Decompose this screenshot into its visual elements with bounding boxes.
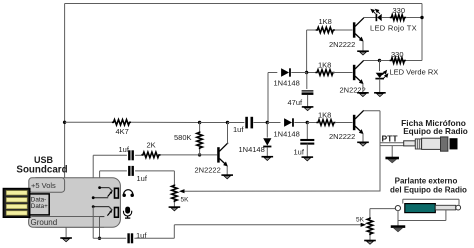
svg-text:1N4148: 1N4148 xyxy=(239,145,265,154)
svg-text:1N4148: 1N4148 xyxy=(274,79,300,88)
wire rowB right xyxy=(135,170,174,172)
wire rowB down to pot xyxy=(173,171,175,184)
wire node D to 1K8 PTT xyxy=(307,122,317,124)
svg-text:330: 330 xyxy=(391,50,404,59)
junction sleeve hp xyxy=(92,196,95,199)
LED verde RX D2 xyxy=(376,73,384,78)
connector mic plug xyxy=(404,141,416,146)
wire C3 to node C xyxy=(253,122,267,124)
svg-text:1K8: 1K8 xyxy=(319,17,332,26)
wire 330 to rail xyxy=(406,17,422,19)
resistor 2K xyxy=(141,152,160,158)
wire 1K8 to Q2 base xyxy=(334,29,353,31)
capacitor 1uf C5 (bottom) xyxy=(127,233,129,243)
wire step up xyxy=(173,225,175,239)
wire to 1uf C3 xyxy=(228,122,245,124)
wire node D down to C4 xyxy=(306,123,308,140)
svg-text:Soundcard: Soundcard xyxy=(16,165,67,176)
wire 1K8 to Q4 base xyxy=(335,122,353,124)
icon microphone xyxy=(125,207,130,214)
transistor Q1 2N2222 (preamp) xyxy=(217,147,220,162)
USB plug contacts xyxy=(3,189,29,218)
svg-text:Parlante externo: Parlante externo xyxy=(395,176,458,185)
svg-text:+5 Vols: +5 Vols xyxy=(31,181,56,190)
potentiometer 5K P1 xyxy=(172,184,178,202)
diode 1N4148 D4 xyxy=(284,118,292,126)
wire mic sleeve down xyxy=(99,217,101,239)
junction bottom row xyxy=(98,237,101,240)
ground Q4 emitter xyxy=(357,141,369,143)
resistor 580K (vertical) xyxy=(197,131,203,149)
wire Q3 emitter down xyxy=(362,84,364,93)
svg-text:1K8: 1K8 xyxy=(318,111,331,120)
USB soundcard body xyxy=(29,178,120,228)
wire PTT ground stub xyxy=(391,146,393,157)
wire corner to 1K8 xyxy=(307,29,317,31)
wire rowA left xyxy=(93,154,127,156)
jack headphone tip contact xyxy=(100,187,110,189)
wire node C to diode D4 xyxy=(267,122,280,124)
wire 2K to junction xyxy=(161,154,200,156)
capacitor 1uf C3 (series) xyxy=(245,117,248,129)
ground P1 xyxy=(169,206,181,208)
wire mic tip down xyxy=(92,207,94,239)
wire LED to 330 xyxy=(382,17,391,19)
junction LED verde xyxy=(378,59,381,62)
wire junction to 330 RX xyxy=(380,60,391,62)
wire speaker top right down xyxy=(458,199,460,205)
svg-text:1uf: 1uf xyxy=(233,125,244,134)
wire D3 to node A xyxy=(291,72,307,74)
capacitor 1uf C4 (vertical) xyxy=(300,139,314,141)
junction tip mic xyxy=(92,205,95,208)
wire +5V rail top xyxy=(65,3,422,5)
junction node C xyxy=(266,121,269,124)
LED rojo TX D1 xyxy=(375,14,377,21)
wire 330 to rail right xyxy=(406,60,422,62)
resistor 4K7 xyxy=(112,120,131,126)
ground USB xyxy=(60,237,72,239)
wire bottom row to step xyxy=(134,237,174,239)
svg-text:2K: 2K xyxy=(147,141,156,150)
junction Q1 collector xyxy=(226,121,229,124)
diode 1N4148 D3 xyxy=(281,68,289,76)
svg-text:47uf: 47uf xyxy=(288,98,304,107)
capacitor 47uf (electrolytic) xyxy=(302,90,314,92)
wire bottom row left xyxy=(93,237,126,239)
wire junction to Q1 base xyxy=(200,154,218,156)
jack mic body xyxy=(115,208,119,218)
wire +5V rail right xyxy=(421,4,423,61)
svg-text:1uf: 1uf xyxy=(137,174,148,183)
diode 1N4148 D5 (vertical) xyxy=(263,138,271,145)
resistor 1K8 (RX base) xyxy=(315,70,334,76)
wire to P2 wiper xyxy=(174,224,360,226)
potentiometer 5K P2 xyxy=(367,217,373,235)
ground speaker (chassis) xyxy=(391,225,406,228)
wire speaker to P2 xyxy=(370,208,395,210)
ground Q2 emitter xyxy=(357,50,369,52)
wire vert to diode D3 xyxy=(268,72,277,74)
wire 580K top stub xyxy=(199,123,201,132)
wire C4 to ground xyxy=(306,144,308,157)
jack mic sleeve contact xyxy=(100,216,105,218)
ground 47uf xyxy=(302,106,314,108)
svg-text:5K: 5K xyxy=(181,197,190,204)
wire USB ground down xyxy=(65,227,67,237)
wire Q3 collector to junction xyxy=(363,60,379,62)
wire vertical to node A xyxy=(306,30,308,73)
transistor Q3 2N2222 (LED verde driver) xyxy=(353,65,356,80)
ground C4 xyxy=(302,156,314,158)
junction tip hp xyxy=(98,186,101,189)
jack mic switch arrow xyxy=(107,212,110,216)
wire speaker left to ground xyxy=(397,211,399,226)
svg-text:2N2222: 2N2222 xyxy=(329,132,355,141)
ground PTT (chassis) xyxy=(385,157,399,160)
wire speaker bottom up xyxy=(445,210,447,221)
wiper arrow P2 xyxy=(361,223,367,227)
wire junction to LED verde xyxy=(379,61,381,72)
USB data cell xyxy=(30,194,50,215)
wire Q1 emitter down xyxy=(226,166,228,175)
svg-text:Data+: Data+ xyxy=(31,203,48,210)
wire 1K8 to Q3 base xyxy=(333,72,352,74)
svg-text:1uf: 1uf xyxy=(119,145,130,154)
wire PTT tip line xyxy=(380,142,404,144)
wire speaker bottom xyxy=(398,220,446,222)
capacitor 1uf C2 (rowB) xyxy=(128,166,130,176)
resistor 330 (RX LED) xyxy=(390,58,406,64)
svg-text:4K7: 4K7 xyxy=(116,127,129,136)
transistor Q4 2N2222 (PTT) xyxy=(353,115,356,130)
junction rail/4K7 xyxy=(63,121,66,124)
svg-text:Equipo de Radio: Equipo de Radio xyxy=(403,127,468,136)
wire Q2 collector to LED xyxy=(363,17,376,19)
jack headphone sleeve contact xyxy=(93,197,108,199)
transistor Q2 2N2222 (LED rojo driver) xyxy=(353,22,356,37)
svg-text:Ground: Ground xyxy=(31,218,58,227)
wire rowB left xyxy=(100,170,127,172)
wire LED verde to ground xyxy=(379,79,381,93)
ground Q1 emitter xyxy=(221,174,233,176)
svg-text:2N2222: 2N2222 xyxy=(195,166,221,175)
wire to Q1 collector xyxy=(200,122,228,124)
cell Ground xyxy=(29,217,105,228)
wire rowB down to jack tip xyxy=(99,171,101,188)
junction rail/330TX xyxy=(420,16,423,19)
wire 4K7 to 580K top xyxy=(131,121,200,123)
wire speaker top xyxy=(403,198,459,200)
wire Q2 emitter down xyxy=(362,41,364,51)
wiper arrow P1 xyxy=(184,190,381,192)
jack mic tip contact xyxy=(93,206,109,208)
wire Q1 collector up xyxy=(227,123,229,144)
resistor 330 (TX LED) xyxy=(390,15,406,21)
wire 47uf to ground xyxy=(307,95,309,107)
svg-text:2N2222: 2N2222 xyxy=(329,40,355,49)
wire speaker top left down xyxy=(402,199,404,203)
wire +5V rail left xyxy=(64,4,66,193)
icon headphone xyxy=(123,190,133,195)
wire node B to 1K8 RX xyxy=(307,72,317,74)
svg-text:5K: 5K xyxy=(356,217,365,224)
svg-text:PTT: PTT xyxy=(382,133,399,143)
wire D4 to node D xyxy=(294,122,307,124)
wire PTT vertical xyxy=(379,111,381,191)
junction 580K bottom xyxy=(198,153,201,156)
wire rowA down to jack sleeve xyxy=(92,155,94,197)
wire D5 to ground xyxy=(266,147,268,156)
wire Q4 collector to corner xyxy=(363,110,380,112)
svg-text:1N4148: 1N4148 xyxy=(274,130,300,139)
connector speaker plug xyxy=(395,206,400,211)
svg-text:580K: 580K xyxy=(174,133,192,142)
ground Q3 emitter xyxy=(357,92,369,94)
ground P2 xyxy=(364,240,376,242)
junction node D xyxy=(306,121,309,124)
svg-text:1uf: 1uf xyxy=(294,148,305,157)
wire node A to 47uf xyxy=(306,73,308,90)
junction 580K top xyxy=(198,121,201,124)
wire PTT sleeve line xyxy=(380,145,404,147)
svg-text:LED Verde RX: LED Verde RX xyxy=(390,68,439,77)
wire Q4 emitter down xyxy=(362,134,364,142)
resistor 1K8 (TX base) xyxy=(316,27,335,33)
junction node A (47uf) xyxy=(305,71,308,74)
wire 580K bottom stub xyxy=(199,149,201,155)
ground D5 xyxy=(262,156,274,158)
resistor 1K8 (PTT base) xyxy=(316,120,335,126)
wire down to P2 top xyxy=(369,209,371,218)
wire C1 to 2K xyxy=(135,154,141,156)
wire node C down to D5 xyxy=(266,123,268,138)
svg-text:1K8: 1K8 xyxy=(318,61,331,70)
capacitor 1uf C1 (rowA) xyxy=(128,150,130,160)
cell +5 Vols xyxy=(29,178,65,192)
svg-text:USB: USB xyxy=(34,155,54,165)
jack headphone body xyxy=(115,188,119,198)
svg-text:330: 330 xyxy=(393,6,406,15)
wire P2 to ground xyxy=(369,235,371,240)
svg-text:LED Rojo TX: LED Rojo TX xyxy=(370,24,417,33)
svg-text:del Equipo de Radio: del Equipo de Radio xyxy=(390,185,467,194)
wire P1 to ground xyxy=(173,202,175,206)
wire rail to 4K7 xyxy=(65,121,112,123)
jack headphone switch arrow xyxy=(108,193,111,197)
ground LED verde xyxy=(374,92,386,94)
wire node C vertical xyxy=(267,73,269,123)
